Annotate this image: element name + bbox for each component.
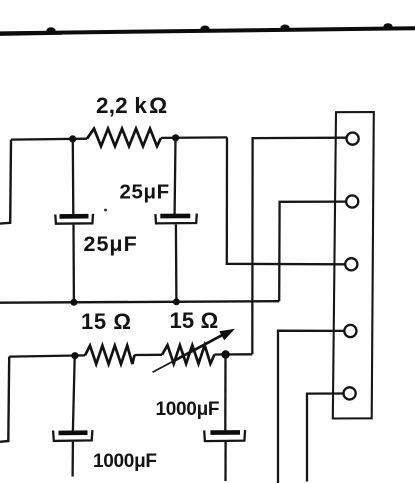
node C: left terminal of R2 <box>71 352 78 359</box>
capacitor C4 1000uF : bottom lead <box>224 442 226 481</box>
wire: top supply rail <box>0 28 415 33</box>
svg-text:2,2 k Ω: 2,2 k Ω <box>96 93 167 118</box>
svg-text:1000μF: 1000μF <box>93 451 157 472</box>
capacitor C4 1000uF : top plate <box>210 430 240 435</box>
capacitor C2 25uF : top lead <box>173 139 176 214</box>
wire: middle rail <box>0 301 279 303</box>
terminal 4 <box>344 325 356 337</box>
capacitor C2 25uF : top plate <box>160 214 190 219</box>
svg-text:25μF: 25μF <box>84 232 138 256</box>
svg-text:1000μF: 1000μF <box>156 399 220 420</box>
wire to terminal 5 (drops to bottom edge) <box>307 394 344 482</box>
rheostat R3 wiper arrowhead <box>219 329 235 340</box>
capacitor C3 1000uF : top plate <box>59 430 88 435</box>
svg-text:15 Ω: 15 Ω <box>170 308 219 333</box>
wire to terminal 2 (from middle rail end) <box>279 202 346 302</box>
capacitor C2 25uF : bottom lead <box>175 224 178 301</box>
capacitor C3 1000uF : top lead <box>73 357 75 431</box>
capacitor C3 1000uF : bottom lead <box>71 442 74 477</box>
junction dot on top rail (x=388) <box>383 23 392 30</box>
capacitor C4 1000uF : top lead <box>224 355 226 430</box>
wire to terminal 3 (from node B) <box>227 137 345 264</box>
wire: top supply rail left thickening <box>0 33 62 34</box>
resistor R1 2,2 kOhm zigzag <box>87 129 161 147</box>
capacitor C1 25uF : bottom bracket plate <box>55 214 93 224</box>
terminal 5 <box>344 387 356 399</box>
terminal 2 <box>346 195 358 207</box>
junction dot on top rail (x=205) <box>200 26 209 33</box>
wire: upper node row <box>11 137 227 139</box>
junction dot middle rail / C1 <box>70 299 77 306</box>
speck between caps <box>104 209 107 212</box>
svg-text:25μF: 25μF <box>120 181 170 204</box>
rheostat R3 wiper arrow tail <box>153 360 177 373</box>
terminal 3 <box>345 258 357 270</box>
resistor R2 15 Ohm zigzag <box>85 346 135 364</box>
connector terminal strip body <box>333 112 374 419</box>
capacitor C3 1000uF : bottom bracket plate <box>53 430 92 441</box>
svg-text:15 Ω: 15 Ω <box>81 309 132 334</box>
capacitor C1 25uF : top plate <box>60 214 89 219</box>
rheostat R3 wiper arrow shaft <box>175 331 230 360</box>
node D: right terminal of R3 <box>221 350 229 358</box>
wire to terminal 4 (drops to bottom edge) <box>278 331 344 483</box>
wire: left drop from node C, exits left edge <box>0 357 9 442</box>
rheostat R3 15 Ohm zigzag <box>162 345 215 364</box>
wire: lower node row <box>9 354 252 356</box>
capacitor C2 25uF : bottom bracket plate <box>155 214 196 224</box>
capacitor C4 1000uF : bottom bracket plate <box>204 430 245 441</box>
node B: right terminal of R1 <box>172 134 179 141</box>
node A: left terminal of R1 <box>69 135 76 142</box>
junction dot middle rail / C2 <box>173 298 180 305</box>
capacitor C1 25uF : top lead <box>72 140 75 214</box>
junction dot on top rail (x=285) <box>280 25 289 32</box>
capacitor C1 25uF : bottom lead <box>72 225 75 302</box>
terminal 1 <box>347 133 359 145</box>
wire: left drop from node A, exits left edge <box>0 140 11 224</box>
wire to terminal 1 (from node D via vertical riser) <box>252 138 346 355</box>
junction dot on top rail (x=51) <box>46 27 55 34</box>
